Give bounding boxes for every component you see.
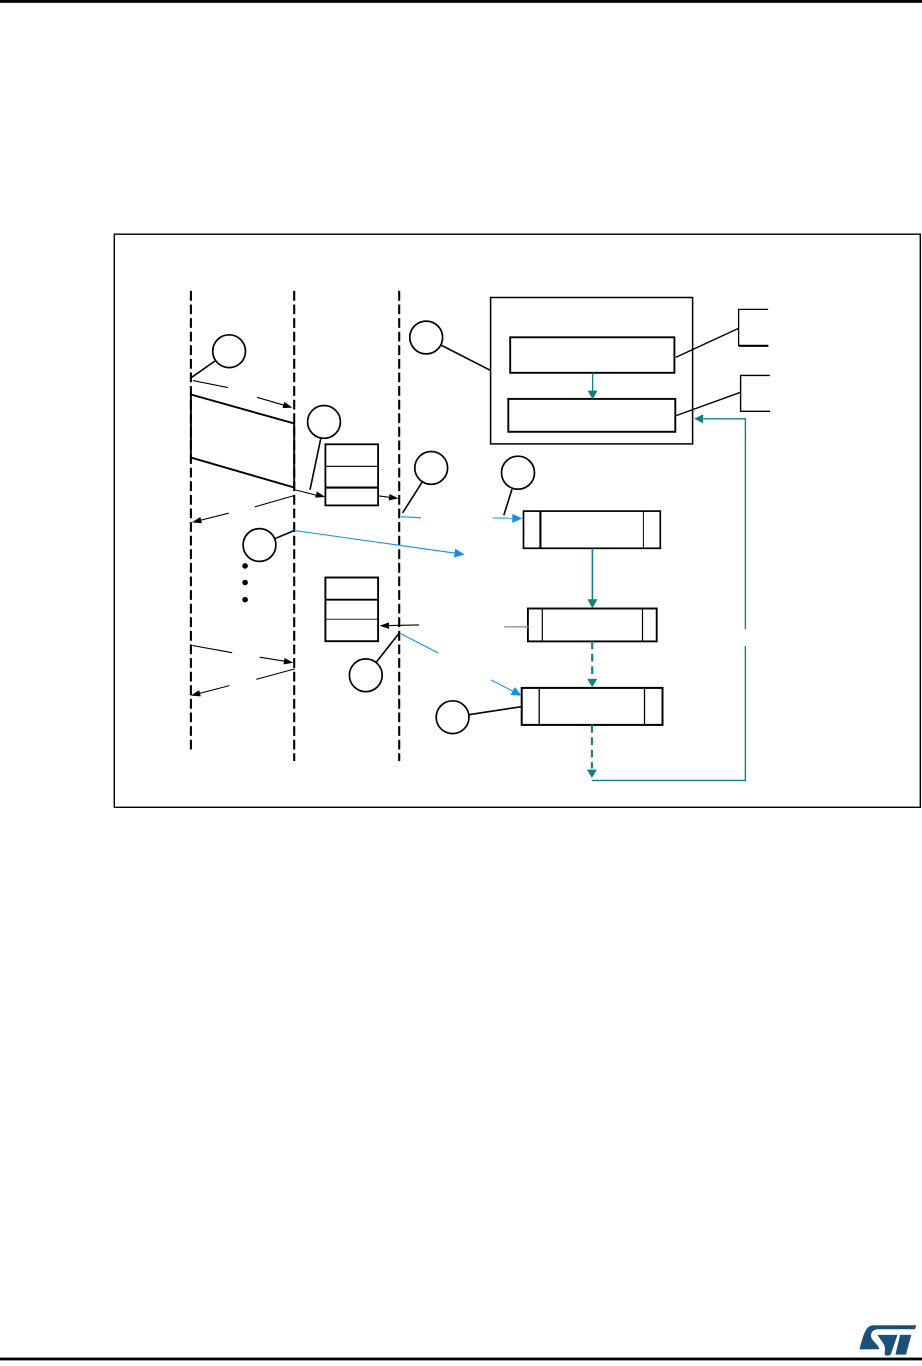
callout circle 5 bbox=[415, 452, 448, 485]
callout circle 4 bbox=[349, 659, 382, 692]
callout circle 2 bbox=[308, 406, 341, 439]
leader line 4 bbox=[376, 633, 399, 662]
callout circle 7 bbox=[502, 456, 535, 489]
arrow table1 to lifeline3 bbox=[379, 494, 399, 502]
thin arrow B bbox=[190, 669, 295, 699]
leader line 8 bbox=[441, 345, 491, 370]
blue arrow 1 (long) bbox=[294, 531, 465, 559]
figure frame bbox=[114, 234, 920, 807]
leader line 1 bbox=[192, 360, 216, 377]
leader line 7 bbox=[504, 489, 512, 515]
teal feedback upper segment bbox=[704, 419, 746, 630]
right box A bbox=[739, 309, 769, 345]
teal dashed arrow box3 down bbox=[587, 725, 597, 778]
leader to box B bbox=[675, 392, 740, 416]
lifeline 1 (dashed) bbox=[190, 291, 192, 750]
leader to box A bbox=[676, 328, 739, 357]
thin arrow C bbox=[191, 496, 294, 526]
teal arrowhead into big rect bbox=[694, 414, 703, 423]
gray line into box 2 bbox=[504, 626, 528, 628]
blue arrow 2 bbox=[400, 633, 524, 699]
teal arrow inner1 to inner2 bbox=[588, 373, 598, 399]
table 1 bbox=[325, 444, 378, 505]
lifeline 2 (dashed) bbox=[293, 291, 295, 761]
arrow into table2 bbox=[379, 622, 418, 629]
leader line 6 bbox=[469, 707, 521, 715]
callout circle 6 bbox=[436, 701, 469, 734]
table 2 bbox=[325, 578, 378, 642]
callout circle 8 bbox=[410, 321, 443, 354]
process box 1 bbox=[524, 511, 661, 548]
leader line 3 bbox=[275, 531, 295, 539]
teal arrow box1 to box2 bbox=[587, 548, 597, 608]
parallelogram bbox=[191, 395, 294, 488]
inner rect 1 bbox=[510, 337, 674, 373]
callout circle 1 bbox=[213, 335, 246, 368]
leader line 2 bbox=[310, 438, 321, 490]
teal feedback polyline bottom bbox=[592, 646, 746, 780]
right box B bbox=[741, 375, 771, 411]
process box 3 bbox=[522, 688, 663, 725]
big container rect bbox=[491, 298, 693, 444]
process box 2 bbox=[528, 609, 657, 642]
lifeline 3 (dashed) bbox=[398, 291, 400, 761]
dots bbox=[242, 563, 248, 569]
blue arrow 3 bbox=[401, 514, 522, 523]
header rule bbox=[0, 0, 922, 3]
arrow into table1 bbox=[294, 490, 326, 501]
thin arrow A bbox=[192, 646, 294, 666]
callout circle 3 bbox=[243, 529, 276, 562]
leader line 5 bbox=[403, 482, 423, 513]
ST logo bbox=[860, 1325, 917, 1355]
inner rect 2 bbox=[508, 399, 675, 432]
teal dashed arrow box2 to box3 bbox=[587, 641, 597, 687]
footer rule bbox=[0, 1358, 922, 1361]
thin arrow T1 bbox=[193, 381, 293, 411]
